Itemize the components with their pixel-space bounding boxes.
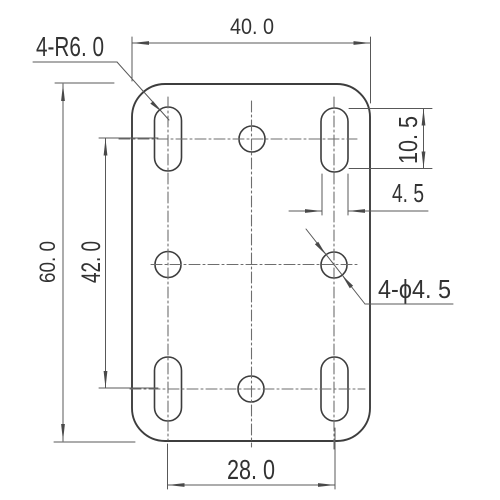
hole mid-right [321, 252, 347, 278]
dimension 10.5 extension line bottom [349, 168, 432, 170]
dimension 4.5 extension line left [321, 174, 323, 215]
dimension 28.0 extension line right [334, 428, 336, 489]
dimension 4.5 line right tail [348, 210, 428, 212]
dimension 42.0 extension line top [99, 137, 158, 139]
label 4-phi4.5 leader underline [365, 303, 453, 305]
centerline vertical left column [167, 97, 169, 440]
slot bottom-right [321, 357, 348, 421]
dimension 60.0 line [62, 84, 64, 441]
hole top-center [239, 126, 265, 152]
hole mid-left [155, 252, 181, 278]
label 4-R6.0 leader arrowhead [150, 101, 162, 112]
centerline vertical right column [333, 97, 335, 449]
dimension 40.0 arrow left [132, 41, 149, 45]
dimension 60.0 extension line top [55, 82, 114, 84]
label 4-R6.0 underline [33, 61, 117, 63]
dimension 40.0 line [132, 42, 371, 44]
dimension 42.0 arrow bottom [104, 371, 108, 388]
dimension 4.5 line left tail [289, 210, 322, 212]
centerline horizontal bottom row [130, 388, 365, 390]
dimension 42.0 extension line bottom [99, 387, 158, 389]
dimension 40.0 extension line left [131, 37, 133, 81]
label 4-phi4.5 arrowhead upper [315, 242, 326, 255]
dimension 60.0 arrow top [61, 84, 65, 101]
dimension 4.5 extension line right [347, 174, 349, 215]
svg-text:4. 5: 4. 5 [392, 178, 424, 208]
dimension 40.0 extension line right [370, 37, 372, 103]
centerline horizontal middle row [151, 264, 358, 266]
dimension 4.5 arrow right [348, 209, 365, 213]
label 4-phi4.5 arrowhead lower [342, 275, 353, 288]
dimension 42.0 arrow top [104, 139, 108, 156]
svg-text:4-R6. 0: 4-R6. 0 [36, 31, 104, 62]
slot top-left [155, 107, 182, 171]
dimension 4.5 arrow left [305, 209, 322, 213]
dimension 40.0 arrow right [354, 41, 371, 45]
hole bottom-center [238, 376, 264, 402]
dimension 10.5 arrow bottom [422, 152, 426, 169]
plate outline [132, 84, 370, 441]
dimension 28.0 extension line left [167, 444, 169, 489]
label 4-R6.0 leader [117, 62, 169, 120]
label 4-phi4.5 leader diagonal [306, 229, 365, 304]
dimension 28.0 arrow right [318, 483, 335, 487]
centerline vertical middle column [251, 101, 253, 447]
dimension 10.5 extension line top [349, 108, 432, 110]
dimension 10.5 line [423, 109, 425, 169]
svg-text:10. 5: 10. 5 [393, 116, 423, 164]
centerline horizontal top row [119, 138, 357, 140]
svg-text:28. 0: 28. 0 [227, 454, 275, 485]
svg-text:4-ϕ4. 5: 4-ϕ4. 5 [378, 274, 451, 304]
dimension 60.0 extension line bottom [54, 441, 135, 443]
dimension 10.5 arrow top [422, 109, 426, 126]
dimension 42.0 line [105, 139, 107, 389]
svg-text:60. 0: 60. 0 [35, 241, 60, 283]
dimension 28.0 arrow left [168, 483, 185, 487]
slot top-right [321, 108, 348, 172]
dimension 60.0 arrow bottom [61, 424, 65, 441]
svg-text:40. 0: 40. 0 [230, 14, 274, 39]
slot bottom-left [155, 357, 182, 421]
dimension 28.0 line [168, 484, 336, 486]
svg-text:42. 0: 42. 0 [76, 241, 106, 283]
